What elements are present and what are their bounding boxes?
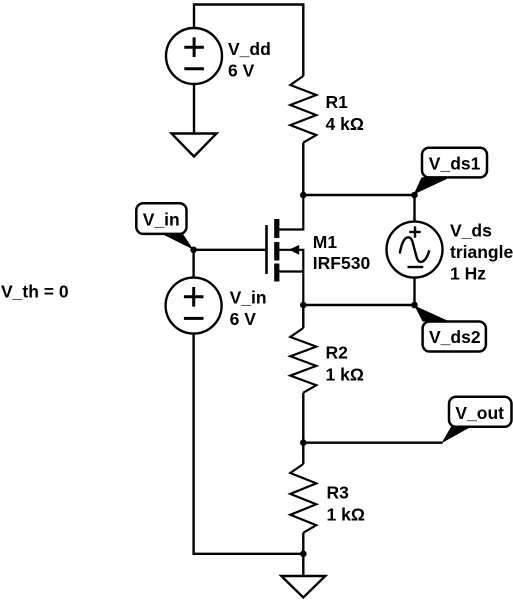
ground (bottom) (281, 576, 325, 598)
label R3 value (327, 482, 365, 524)
wire gate node down to V_in source top (192, 250, 194, 278)
wire gate node to MOSFET gate (194, 249, 266, 251)
voltage source V_in (166, 278, 222, 334)
node V_out junction dot (300, 439, 307, 446)
wire drain node to V_ds1 node (303, 194, 414, 196)
label V_in value (230, 288, 267, 330)
wire top rail from V_dd to R1 (194, 5, 303, 77)
svg-text:R3: R3 (327, 482, 350, 502)
svg-text:triangle: triangle (450, 242, 513, 262)
resistor R2 (290, 328, 316, 393)
node source junction dot (300, 302, 307, 309)
wire ground node to ground symbol (302, 554, 304, 576)
label R2 value (326, 343, 364, 385)
svg-text:4 kΩ: 4 kΩ (326, 114, 364, 134)
svg-text:1 Hz: 1 Hz (450, 263, 486, 283)
svg-text:IRF530: IRF530 (313, 253, 371, 273)
svg-text:V_in: V_in (230, 288, 267, 308)
svg-text:1 kΩ: 1 kΩ (327, 504, 365, 524)
ground (under V_dd) (172, 134, 217, 157)
svg-text:M1: M1 (313, 232, 338, 252)
svg-text:V_ds2: V_ds2 (429, 327, 481, 347)
svg-text:V_ds: V_ds (450, 221, 492, 241)
net label V_out (442, 397, 512, 444)
label M1 IRF530 (313, 232, 371, 273)
drain connection (279, 195, 303, 230)
label V_dd value (228, 39, 271, 81)
resistor R3 (290, 464, 316, 533)
wire V_out node to R3 top (302, 443, 304, 464)
net label V_ds1 (414, 148, 487, 195)
svg-text:V_in: V_in (143, 210, 180, 230)
body line with arrow (279, 250, 303, 305)
svg-text:6 V: 6 V (230, 309, 257, 329)
node ground junction dot (300, 551, 307, 558)
wire R3 bottom to ground node (302, 533, 304, 554)
svg-text:R1: R1 (326, 92, 349, 112)
node V_ds2 junction dot (411, 302, 418, 309)
svg-text:6 V: 6 V (228, 61, 255, 81)
svg-text:R2: R2 (326, 343, 349, 363)
svg-text:V_out: V_out (455, 403, 504, 423)
svg-text:V_ds1: V_ds1 (429, 154, 481, 174)
label R1 value (326, 92, 364, 134)
node gate junction dot (190, 247, 197, 254)
transistor M1 (NMOS) (267, 195, 304, 305)
wire V_dd bottom to ground (193, 84, 195, 134)
voltage source V_ds (sine symbol) (387, 222, 443, 278)
wire V_ds source bottom to V_ds2 node (413, 278, 415, 305)
wire V_out node to V_out label (303, 442, 442, 444)
net label V_in (136, 203, 193, 249)
svg-text:1 kΩ: 1 kΩ (326, 365, 364, 385)
gate line (265, 225, 268, 274)
wire V_ds1 node down to V_ds source top (413, 195, 415, 222)
wire source node to R2 top (302, 305, 304, 328)
wire source node to V_ds2 node (303, 304, 414, 306)
node drain junction dot (300, 192, 307, 199)
wire R1 bottom to drain node (302, 143, 304, 195)
source connection (279, 270, 303, 272)
svg-text:V_th = 0: V_th = 0 (1, 282, 69, 302)
wire V_in bottom down and right to ground node (194, 334, 304, 554)
resistor R1 (290, 76, 316, 143)
net label V_ds2 (414, 306, 486, 352)
svg-text:V_dd: V_dd (228, 39, 271, 59)
label V_ds value (450, 221, 513, 284)
channel bars (274, 219, 279, 238)
node V_ds1 junction dot (411, 192, 418, 199)
voltage source V_dd (166, 28, 222, 84)
wire R2 bottom to V_out node (302, 393, 304, 443)
